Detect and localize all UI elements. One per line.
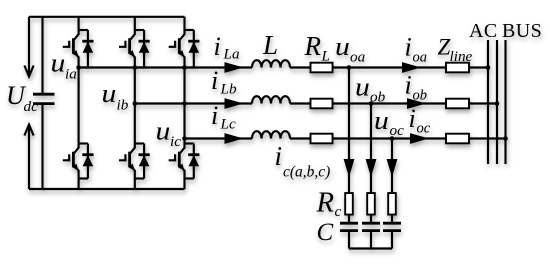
svg-text:ob: ob	[370, 89, 386, 106]
svg-text:dc: dc	[24, 98, 39, 115]
svg-text:ic: ic	[170, 133, 181, 150]
svg-text:i: i	[214, 32, 221, 61]
svg-text:i: i	[409, 104, 416, 133]
svg-text:c(a,b,c): c(a,b,c)	[283, 164, 330, 181]
svg-text:i: i	[275, 141, 283, 171]
svg-text:u: u	[102, 79, 117, 108]
svg-text:oc: oc	[417, 121, 431, 137]
svg-text:u: u	[156, 117, 171, 146]
svg-text:AC BUS: AC BUS	[469, 20, 542, 42]
svg-text:ib: ib	[117, 97, 129, 114]
svg-text:oa: oa	[413, 50, 428, 66]
svg-text:i: i	[211, 66, 218, 95]
svg-text:c: c	[335, 203, 342, 220]
svg-text:ob: ob	[413, 88, 428, 104]
svg-text:u: u	[374, 106, 389, 135]
svg-text:ia: ia	[65, 66, 77, 83]
svg-text:i: i	[405, 71, 412, 100]
svg-text:Lc: Lc	[220, 116, 236, 133]
svg-text:u: u	[355, 73, 370, 102]
svg-text:R: R	[315, 188, 334, 219]
svg-text:C: C	[317, 219, 334, 246]
svg-text:u: u	[51, 49, 66, 78]
svg-text:oa: oa	[350, 49, 366, 66]
svg-text:R: R	[304, 31, 322, 61]
svg-text:L: L	[262, 30, 278, 60]
svg-text:u: u	[335, 32, 350, 61]
svg-text:La: La	[223, 46, 240, 63]
svg-text:line: line	[450, 48, 473, 65]
svg-text:i: i	[405, 33, 412, 62]
svg-text:i: i	[211, 101, 218, 130]
svg-text:L: L	[321, 48, 330, 65]
svg-text:oc: oc	[390, 122, 405, 139]
svg-text:Lb: Lb	[220, 81, 237, 98]
